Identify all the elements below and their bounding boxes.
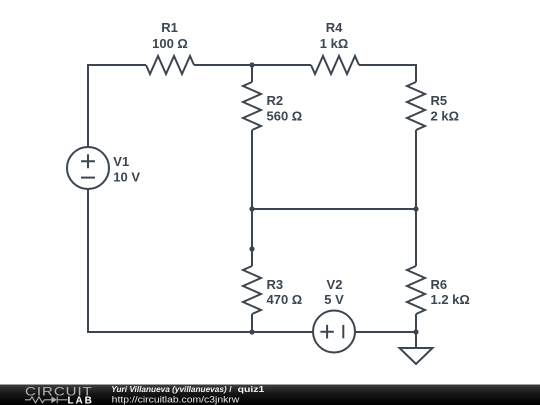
- svg-text:quiz1: quiz1: [238, 384, 265, 394]
- svg-text:R5: R5: [431, 93, 448, 108]
- svg-text:R2: R2: [267, 93, 284, 108]
- node A junction dot: [249, 62, 254, 67]
- wire: R5 bottom to node C: [415, 130, 417, 209]
- svg-text:V2: V2: [327, 277, 343, 292]
- resistor R1: [146, 56, 194, 74]
- svg-text:560 Ω: 560 Ω: [267, 108, 303, 123]
- wire: top-left corner, V1 column up and across to R1: [88, 65, 146, 147]
- wire: middle horizontal node B to node C: [252, 208, 416, 210]
- svg-text:Yuri Villanueva (yvillanuevas): Yuri Villanueva (yvillanuevas): [111, 384, 227, 394]
- node F junction dot (R3 bottom): [249, 329, 254, 334]
- node D junction dot: [249, 246, 254, 251]
- svg-text:LAB: LAB: [68, 396, 94, 405]
- wire: V2 right terminal to node E: [355, 331, 416, 333]
- resistor R3: [243, 266, 261, 314]
- V1 minus sign: [81, 177, 95, 179]
- V1 plus sign: [81, 154, 95, 168]
- node E junction dot (R6 / ground): [413, 329, 418, 334]
- svg-text:470 Ω: 470 Ω: [267, 292, 303, 307]
- ground symbol: [400, 348, 433, 364]
- V2 plus sign: [320, 325, 333, 339]
- svg-text:R3: R3: [267, 277, 284, 292]
- svg-text:1.2 kΩ: 1.2 kΩ: [431, 292, 470, 307]
- resistor R2: [243, 82, 261, 130]
- voltage source V2: [313, 311, 355, 353]
- voltage source V1: [67, 147, 109, 189]
- svg-text:1 kΩ: 1 kΩ: [320, 36, 349, 51]
- wire: ground stem: [415, 332, 417, 348]
- svg-text:R1: R1: [161, 20, 178, 35]
- svg-text:10 V: 10 V: [113, 170, 140, 185]
- svg-text:2 kΩ: 2 kΩ: [431, 108, 460, 123]
- svg-text:100 Ω: 100 Ω: [152, 36, 188, 51]
- node C junction dot: [413, 206, 418, 211]
- svg-text:http://circuitlab.com/c3jnkrw: http://circuitlab.com/c3jnkrw: [112, 395, 240, 405]
- resistor R6: [407, 266, 425, 314]
- wire: R2 top lead from node A: [251, 65, 253, 82]
- svg-text:5 V: 5 V: [324, 292, 344, 307]
- wire: R4 right to top-right corner down to R5: [359, 65, 416, 82]
- wire: R6 top lead from node C: [415, 209, 417, 266]
- wire: R3 bottom to bottom wire: [251, 314, 253, 332]
- V2 minus bar: [342, 325, 344, 338]
- svg-text:V1: V1: [113, 154, 129, 169]
- wire: V1 bottom terminal down around bottom-left corner to V2 left terminal: [88, 189, 313, 332]
- wire: node D to R3 top: [251, 249, 253, 266]
- node B junction dot: [249, 206, 254, 211]
- svg-text:R6: R6: [431, 277, 448, 292]
- wire: node A to R4: [252, 64, 311, 66]
- logo resistor squiggle and diode: [25, 396, 68, 403]
- resistor R5: [407, 82, 425, 130]
- svg-text:R4: R4: [326, 20, 343, 35]
- wire: R1 right to node A: [194, 64, 252, 66]
- wire: R2 bottom to node B: [251, 130, 253, 209]
- resistor R4: [311, 56, 359, 74]
- wire: node B down to node D: [251, 209, 253, 249]
- wire: R6 bottom to node E: [415, 314, 417, 332]
